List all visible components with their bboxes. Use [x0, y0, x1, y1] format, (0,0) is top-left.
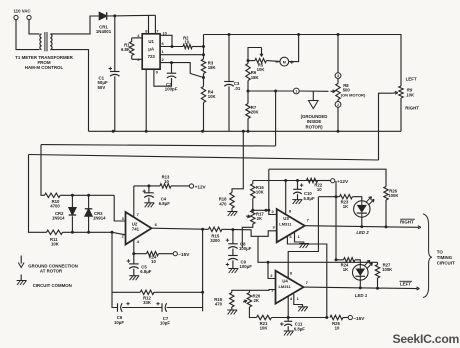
junction R3 R4: [202, 76, 205, 79]
U1 pin 8 wire: [148, 15, 150, 33]
capacitor C6: [117, 303, 119, 312]
wire hysteresis R26 to U3 pin2 node: [268, 169, 270, 210]
svg-text:RIGHT: RIGHT: [400, 220, 414, 225]
wire +12V down to R23 R24: [335, 181, 337, 260]
svg-text:10K: 10K: [51, 242, 60, 247]
wire circled1 to R8 wiper: [299, 90, 328, 92]
terminal -15V U4: [348, 315, 352, 319]
svg-text:U1: U1: [148, 39, 154, 44]
diode CR2: [71, 195, 73, 207]
common rail: [89, 130, 402, 132]
junction U3 pin2 reference: [265, 209, 268, 212]
svg-text:U4: U4: [282, 279, 288, 284]
wire R20 to R21: [249, 307, 256, 318]
svg-text:U3: U3: [283, 216, 289, 221]
terminal circled 3: [337, 35, 339, 73]
resistor R21: [257, 315, 272, 319]
U1 pin 6 lead: [160, 46, 183, 48]
rail R8-wiper to R10: [41, 145, 276, 146]
U4 output wire LEFT: [304, 287, 418, 289]
U2 output wire: [152, 228, 209, 229]
signal line to U4 pin2 and R27: [258, 236, 378, 262]
resistor R26: [384, 187, 388, 201]
capacitor C8: [232, 230, 234, 244]
svg-text:7: 7: [307, 217, 310, 222]
svg-text:20K: 20K: [251, 110, 260, 115]
svg-text:+12V: +12V: [195, 184, 207, 189]
terminal 110VAC right: [27, 15, 31, 19]
resistor R4: [201, 87, 205, 103]
resistor R18 ground leg: [232, 131, 243, 192]
junction R23 feed: [335, 195, 338, 198]
svg-text:6.8μF: 6.8μF: [140, 269, 152, 274]
junction R16 R17 to pin2: [252, 198, 254, 210]
U1 pin 2 lead: [160, 63, 203, 78]
terminal circled 1: [293, 88, 299, 94]
junction pin2 C2: [170, 61, 173, 64]
svg-text:CIRCUIT: CIRCUIT: [437, 260, 455, 265]
comparator U4 LM311: [276, 271, 304, 304]
svg-text:−15V: −15V: [178, 252, 190, 257]
regulated top rail: [204, 35, 402, 87]
svg-text:10K: 10K: [257, 67, 266, 72]
svg-text:CIRCUIT COMMON: CIRCUIT COMMON: [33, 283, 72, 288]
R9 wiper: [393, 92, 398, 95]
comparator U3 LM311: [277, 209, 305, 242]
potentiometer R8: [337, 79, 339, 84]
svg-text:LED 1: LED 1: [355, 293, 368, 298]
svg-text:10: 10: [317, 187, 322, 192]
resistor R25: [330, 315, 343, 319]
potentiometer R20: [247, 293, 251, 308]
svg-text:SeekIC.com: SeekIC.com: [393, 332, 460, 346]
reference rail to R11: [29, 155, 379, 161]
svg-text:100μF: 100μF: [239, 246, 252, 251]
wire circled2 to common rail: [337, 107, 339, 131]
svg-text:2: 2: [271, 209, 274, 214]
svg-text:100pF: 100pF: [165, 87, 178, 92]
resistor R5 loop: [248, 48, 262, 61]
svg-text:10: 10: [184, 40, 189, 45]
svg-text:LED 2: LED 2: [356, 230, 369, 235]
svg-text:HAM-M CONTROL: HAM-M CONTROL: [25, 65, 64, 70]
svg-text:1K: 1K: [343, 204, 349, 209]
wire R9 bottom to common rail: [400, 98, 402, 131]
hysteresis line: [269, 169, 386, 186]
wire secondary top to diode: [50, 16, 99, 34]
terminal circled 2: [337, 100, 339, 102]
svg-text:10K: 10K: [406, 92, 415, 97]
U3 pin1 ground: [295, 232, 304, 243]
svg-text:6.8μF: 6.8μF: [304, 196, 316, 201]
junction C8 signal: [231, 228, 234, 231]
junction CR3 top: [87, 194, 90, 197]
resistor R24: [335, 258, 338, 261]
U1 pin 7 wire: [154, 15, 156, 34]
wire R4 to common rail: [203, 103, 205, 132]
svg-text:1N4001: 1N4001: [96, 29, 112, 34]
svg-text:470: 470: [219, 201, 227, 206]
U4 pin1 ground: [294, 294, 303, 307]
capacitor C2: [171, 63, 173, 74]
wire 110VAC left to transformer: [16, 20, 40, 50]
svg-text:ROTOR): ROTOR): [305, 124, 323, 129]
junction pin10 pin6: [171, 45, 174, 48]
wire R10 to U2 pin3: [114, 195, 125, 221]
svg-text:AT ROTOR: AT ROTOR: [40, 269, 63, 274]
transformer T1 core: [44, 32, 46, 51]
svg-text:RIGHT: RIGHT: [405, 105, 419, 110]
terminal +12V U2: [189, 184, 193, 188]
svg-text:33K: 33K: [143, 300, 152, 305]
svg-text:7: 7: [137, 212, 140, 217]
svg-text:2K: 2K: [257, 216, 263, 221]
svg-text:10: 10: [163, 32, 167, 36]
resistor R11: [47, 230, 63, 234]
svg-text:10μF: 10μF: [160, 321, 170, 326]
svg-text:LEFT: LEFT: [400, 282, 411, 287]
svg-text:LM311: LM311: [279, 222, 292, 227]
svg-text:100K: 100K: [382, 267, 393, 272]
svg-text:.01: .01: [234, 86, 241, 91]
svg-text:LEFT: LEFT: [406, 77, 417, 82]
junction U3 pin4 drop: [325, 316, 328, 319]
resistor R19: [230, 293, 234, 308]
brace to timing circuit: [423, 214, 432, 298]
resistor R14: [147, 252, 159, 256]
svg-text:2: 2: [337, 103, 339, 107]
capacitor C7: [161, 303, 163, 312]
svg-text:6.8K: 6.8K: [121, 47, 131, 52]
svg-text:10K: 10K: [256, 189, 265, 194]
+12V feed line U2: [134, 185, 160, 187]
resistor R7: [247, 91, 249, 104]
svg-text:18K: 18K: [251, 75, 260, 80]
terminal 110VAC left: [14, 15, 18, 19]
svg-text:110 VAC: 110 VAC: [14, 9, 32, 14]
U1 pin 10 wire loop: [160, 35, 172, 46]
junction pin2 drop: [267, 261, 270, 264]
svg-text:3: 3: [337, 74, 339, 78]
svg-text:8: 8: [145, 29, 148, 34]
svg-text:μA: μA: [148, 47, 155, 52]
wire C6 branch: [112, 292, 118, 307]
resistor R16: [252, 181, 254, 184]
capacitor C5: [132, 252, 135, 255]
resistor R2: [183, 44, 192, 48]
U2 pin4 wire to -15V line: [133, 239, 135, 253]
svg-text:6.8μF: 6.8μF: [294, 326, 306, 331]
svg-text:+12V: +12V: [337, 179, 349, 184]
svg-text:TIMING: TIMING: [437, 255, 453, 260]
svg-text:1K: 1K: [343, 267, 349, 272]
resistor R10: [45, 193, 61, 197]
capacitor C10: [296, 179, 299, 182]
U2 pin7 wire to +12V line: [133, 186, 135, 217]
potentiometer R9: [399, 86, 403, 98]
resistor R5: [248, 60, 255, 62]
svg-text:M: M: [283, 60, 286, 64]
svg-text:6.8μF: 6.8μF: [159, 201, 171, 206]
wire +12V feed to U4 pin8: [318, 196, 336, 198]
svg-text:3: 3: [272, 225, 275, 230]
terminal -15V U2: [173, 252, 177, 256]
resistor R15: [209, 227, 223, 231]
junction R5 R6: [247, 59, 250, 62]
svg-text:LM311: LM311: [278, 284, 291, 289]
wire U1 region vertical to R3: [203, 35, 205, 60]
transformer T1 primary: [40, 34, 42, 50]
wire R9 wiper down to reference line: [379, 93, 393, 160]
svg-text:(ON MOTOR): (ON MOTOR): [341, 93, 366, 98]
wire LED1 to output: [359, 280, 361, 288]
svg-text:1: 1: [162, 49, 165, 54]
U1 pin 3 lead: [132, 58, 143, 60]
meter M: [266, 60, 280, 63]
svg-text:4: 4: [137, 239, 140, 244]
svg-text:723: 723: [148, 54, 156, 59]
wire R17 bottom: [242, 224, 253, 248]
resistor R1: [131, 38, 133, 42]
wire CR1 to top rail: [106, 14, 155, 17]
feedback vertical R12 C7: [202, 229, 204, 311]
junction CR3 bottom: [87, 231, 90, 234]
resistor R22: [307, 178, 318, 182]
resistor R3: [201, 59, 205, 74]
svg-text:10: 10: [151, 259, 156, 264]
grounded-inside-rotor arrow symbol: [312, 91, 314, 101]
svg-text:50V: 50V: [98, 85, 106, 90]
diode CR1: [99, 12, 107, 20]
transformer T1 secondary: [50, 34, 52, 50]
resistor R27: [377, 262, 379, 264]
svg-text:8: 8: [289, 208, 292, 213]
wire U4 pin2: [268, 262, 276, 278]
op-amp U2 741: [126, 212, 152, 245]
wire 110VAC right to transformer: [29, 20, 40, 34]
junction R12 right: [201, 291, 204, 294]
U1 pin 5 wire to common rail: [145, 69, 147, 131]
svg-text:4700: 4700: [50, 204, 60, 209]
wire rail to R11: [29, 155, 47, 233]
junction meter rail: [297, 33, 300, 36]
capacitor C3: [228, 35, 230, 82]
wire R7 to common rail: [247, 119, 249, 132]
svg-text:18K: 18K: [208, 65, 217, 70]
U1 pin 1 lead: [160, 54, 203, 56]
svg-text:TO: TO: [437, 249, 444, 254]
wire R8 wiper drop: [275, 91, 277, 146]
capacitor C4: [147, 184, 150, 187]
svg-text:100μF: 100μF: [240, 264, 253, 269]
LED 1: [353, 265, 369, 281]
svg-text:10K: 10K: [208, 94, 217, 99]
resistor R6: [247, 61, 249, 64]
svg-text:2: 2: [162, 57, 165, 62]
svg-text:2: 2: [270, 273, 273, 278]
terminal +12V U3: [318, 180, 331, 182]
svg-text:10: 10: [164, 179, 169, 184]
svg-text:7: 7: [306, 280, 309, 285]
svg-text:8: 8: [290, 270, 293, 275]
svg-text:741: 741: [132, 226, 140, 231]
svg-text:1: 1: [295, 90, 297, 94]
U1 pin 4 lead: [132, 37, 143, 39]
svg-text:1: 1: [298, 235, 300, 239]
svg-text:470: 470: [215, 302, 223, 307]
-15V feed line U2: [134, 253, 147, 255]
wire divider to U3 pin2: [253, 210, 277, 214]
junction R6 wiper line: [247, 81, 249, 92]
legend ground-at-rotor arrow: [20, 256, 22, 264]
junction CR2 bottom: [71, 231, 74, 234]
junction pin1 vertical: [202, 53, 205, 56]
wire meter to rail: [289, 35, 299, 62]
svg-text:6: 6: [162, 41, 165, 46]
svg-text:7: 7: [156, 29, 159, 34]
svg-text:4: 4: [290, 296, 293, 301]
resistor R13: [160, 184, 171, 188]
resistor R12: [112, 232, 140, 292]
potentiometer R17: [251, 210, 255, 224]
resistor R23: [340, 195, 353, 199]
svg-text:10: 10: [335, 325, 340, 330]
junction feedback vertical: [201, 228, 204, 231]
wire LED2 to output: [361, 217, 363, 226]
svg-text:1: 1: [297, 297, 299, 301]
U3 pin8 wire to +12V: [285, 181, 287, 215]
capacitor C9 wire: [232, 249, 234, 256]
svg-text:2K: 2K: [254, 298, 260, 303]
diode CR3: [88, 195, 90, 209]
svg-text:10μF: 10μF: [114, 320, 124, 325]
capacitor C1: [114, 16, 116, 72]
resistor R18: [230, 193, 234, 209]
junction CR2 top: [71, 194, 74, 197]
wire R6 to circled 1: [248, 90, 294, 92]
legend circuit-common ground symbol: [20, 275, 22, 281]
svg-text:3300: 3300: [210, 238, 220, 243]
resistor R19 R20 feed line: [232, 290, 250, 292]
junction R12 feedback: [111, 231, 114, 234]
wire divider to U4 pin3: [249, 289, 275, 292]
svg-text:9: 9: [156, 70, 159, 75]
svg-text:−15V: −15V: [353, 316, 365, 321]
svg-text:6: 6: [155, 222, 158, 227]
svg-text:10K: 10K: [260, 326, 269, 331]
svg-text:100K: 100K: [388, 193, 399, 198]
capacitor C11: [287, 318, 289, 322]
junction CR1 rail C1: [113, 14, 116, 17]
U3 pin4 wire to -15V line: [287, 236, 326, 317]
svg-text:3: 3: [271, 288, 274, 293]
LED 2: [354, 201, 370, 217]
U4 pin4 wire to -15V line: [287, 296, 289, 317]
junction wiper drop: [274, 90, 277, 93]
+12V line U3: [253, 180, 331, 182]
U3 output wire RIGHT: [305, 226, 419, 228]
junction R2 vertical: [202, 45, 205, 48]
junction U4 pin4: [287, 316, 290, 319]
wire secondary bottom down to common rail: [50, 50, 88, 132]
U4 pin8 wire to +12V: [288, 197, 318, 279]
wire rail to R10: [41, 145, 45, 196]
IC U1 uA723: [142, 34, 160, 69]
svg-text:1N914: 1N914: [93, 216, 106, 221]
svg-text:1N914: 1N914: [52, 216, 65, 221]
capacitor C9: [228, 255, 238, 257]
svg-text:4: 4: [289, 234, 292, 239]
